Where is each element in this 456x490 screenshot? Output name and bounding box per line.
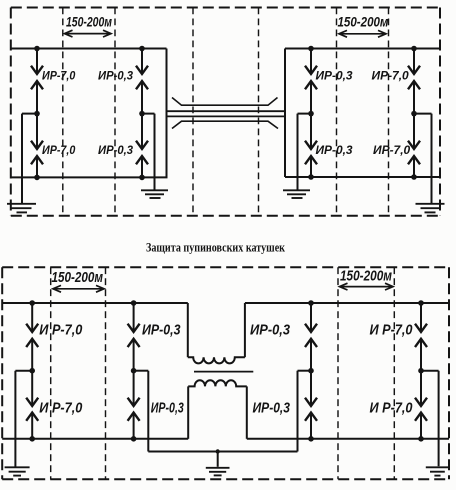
node: midpoint junction col4 bbox=[411, 111, 417, 117]
node: midpoint junction colB bbox=[131, 368, 137, 374]
pupin coil upper winding L1 bbox=[188, 357, 245, 363]
cable insert conductor lower (top diagram) bbox=[167, 115, 285, 117]
arrester ИР-7,0 upper (col1, top diagram): spark gap bbox=[36, 49, 38, 75]
wire: ground bus lead colB bbox=[147, 371, 149, 452]
arrester ИР-7,0 upper (col4, top diagram): spark gap bbox=[413, 49, 415, 75]
node: bottom wire junction col4 bbox=[411, 174, 417, 180]
wire: bottom conductor, right section (bottom diagram) bbox=[247, 438, 449, 440]
dashed border right (top diagram) bbox=[439, 8, 441, 216]
wire: drop to pupin coil upper winding, left bbox=[187, 303, 189, 357]
svg-text:И Р-7,0: И Р-7,0 bbox=[39, 401, 82, 417]
arrester ИР-0,3 upper (colB, bottom diagram): spark gap bbox=[133, 303, 135, 332]
section line (pole) 4 top diagram bbox=[258, 8, 260, 216]
section line (pole) 3 bottom diagram bbox=[337, 267, 339, 479]
svg-text:ИР-0,3: ИР-0,3 bbox=[316, 68, 353, 82]
wire: lower winding left lead bbox=[187, 386, 189, 438]
node: top wire junction col4 bbox=[411, 46, 417, 52]
wire: top conductor, left section (bottom diagram) bbox=[2, 302, 188, 304]
svg-text:ИР-7,0: ИР-7,0 bbox=[372, 68, 409, 82]
node: bottom wire junction col2 bbox=[139, 175, 145, 181]
dashed border left (bottom diagram) bbox=[1, 267, 3, 479]
node: bottom wire junction col1 bbox=[34, 175, 40, 181]
arrester ИР-7,0 lower (colD, bottom diagram): spark gap bbox=[420, 371, 422, 406]
wire: jog from col3 midpoint to ground lead bbox=[298, 113, 312, 115]
ground symbol (right corner, top diagram) bbox=[416, 204, 445, 213]
wire: ground stem (bus, bottom diagram) bbox=[217, 452, 219, 467]
arrester ИР-7,0 upper (colA, bottom diagram): spark gap bbox=[31, 303, 33, 332]
node: top wire junction colD bbox=[418, 300, 424, 306]
wire: bottom line conductor, right section (top diagram) bbox=[285, 176, 440, 178]
dimension arrow bottom-left bbox=[53, 285, 104, 292]
node: top wire junction col1 bbox=[34, 46, 40, 52]
svg-text:ИР-7,0: ИР-7,0 bbox=[42, 68, 75, 82]
dimension arrow bottom-right bbox=[340, 283, 394, 290]
wire: jog from colD midpoint to ground lead bbox=[421, 370, 439, 372]
arrester ИР-0,3 upper (col2, top diagram): spark gap bbox=[141, 49, 143, 75]
section line (pole) 5 top diagram bbox=[336, 8, 338, 216]
wire: top line conductor, left section (top diagram) bbox=[11, 48, 167, 50]
node: midpoint junction col1 bbox=[34, 111, 40, 117]
node: bottom wire junction col3 bbox=[308, 174, 314, 180]
ground symbol (mid-left, top diagram) bbox=[141, 190, 168, 198]
node: midpoint junction colA bbox=[29, 368, 35, 374]
section line (pole) 6 top diagram bbox=[388, 8, 390, 216]
cable sheath outline lower (top diagram) bbox=[172, 121, 278, 128]
dashed border bottom (bottom diagram) bbox=[2, 478, 449, 480]
wire: common ground bus (bottom diagram) bbox=[148, 451, 297, 453]
dimension arrow top-right bbox=[339, 30, 386, 37]
dashed border left (top diagram) bbox=[10, 8, 12, 216]
node: top wire junction col2 bbox=[139, 46, 145, 52]
dimension arrow top-left bbox=[65, 30, 112, 37]
wire: top line conductor, right section (top diagram) bbox=[285, 48, 440, 50]
node: top wire junction colC bbox=[308, 300, 314, 306]
section line (pole) 3 top diagram bbox=[192, 8, 194, 216]
arrester ИР-0,3 lower (colC, bottom diagram): spark gap bbox=[310, 371, 312, 406]
arrester ИР-0,3 upper (col3, top diagram): spark gap bbox=[310, 49, 312, 75]
wire: lower winding right lead bbox=[246, 386, 248, 438]
node: top wire junction col3 bbox=[308, 46, 314, 52]
section line (pole) 2 bottom diagram bbox=[105, 267, 107, 479]
node: midpoint junction col3 bbox=[308, 111, 314, 117]
svg-text:150-200м: 150-200м bbox=[66, 13, 112, 29]
wire: ground bus lead colC bbox=[297, 371, 299, 452]
section line (pole) 4 bottom diagram bbox=[393, 267, 395, 479]
section line (pole) 1 bottom diagram bbox=[50, 267, 52, 479]
dashed border bottom (top diagram) bbox=[11, 215, 440, 217]
svg-text:ИР-7,0: ИР-7,0 bbox=[42, 143, 75, 157]
wire: ground lead col4 bbox=[431, 114, 433, 204]
svg-text:150-200м: 150-200м bbox=[340, 269, 392, 285]
svg-text:Защита пупиновских катушек: Защита пупиновских катушек bbox=[146, 240, 286, 254]
dashed border right (bottom diagram) bbox=[448, 267, 450, 479]
wire: ground lead colD bbox=[438, 371, 440, 467]
ground symbol (left corner, bottom diagram) bbox=[5, 467, 30, 475]
wire: jog from colA midpoint to ground lead bbox=[15, 370, 32, 372]
arrester ИР-0,3 lower (col2, top diagram): spark gap bbox=[141, 114, 143, 149]
arrester ИР-0,3 lower (colB, bottom diagram): spark gap bbox=[133, 371, 135, 406]
cable sheath outline upper (top diagram) bbox=[172, 98, 278, 106]
pupin coil core bbox=[194, 371, 253, 373]
svg-text:150-200м: 150-200м bbox=[338, 13, 390, 29]
node: ground bus tap bbox=[216, 449, 220, 453]
node: bottom wire junction colA bbox=[29, 436, 35, 442]
node: midpoint junction col2 bbox=[139, 111, 145, 117]
arrester ИР-7,0 lower (col4, top diagram): spark gap bbox=[413, 114, 415, 149]
wire: riser from pupin coil upper winding, right bbox=[244, 303, 246, 357]
cable insert conductor upper (top diagram) bbox=[167, 110, 286, 112]
node: bottom wire junction colC bbox=[308, 436, 314, 442]
svg-text:ИР-0,3: ИР-0,3 bbox=[98, 68, 133, 82]
svg-text:ИР-0,3: ИР-0,3 bbox=[253, 401, 291, 417]
ground symbol (center, bottom diagram) bbox=[206, 468, 230, 476]
wire: jog from col2 midpoint to ground lead bbox=[142, 113, 155, 115]
arrester ИР-0,3 upper (colC, bottom diagram): spark gap bbox=[310, 303, 312, 332]
wire: jog from colB midpoint to ground bus bbox=[134, 370, 149, 372]
node: top wire junction colB bbox=[131, 300, 137, 306]
svg-text:ИР-0,3: ИР-0,3 bbox=[316, 143, 353, 157]
section line (pole) 2 top diagram bbox=[114, 8, 116, 216]
ground symbol (mid-right, top diagram) bbox=[283, 190, 310, 198]
arrester ИР-7,0 upper (colD, bottom diagram): spark gap bbox=[420, 303, 422, 332]
svg-text:И Р-7,0: И Р-7,0 bbox=[370, 401, 413, 417]
svg-text:ИР-0,3: ИР-0,3 bbox=[98, 143, 133, 157]
wire: top conductor, right section (bottom diagram) bbox=[245, 302, 449, 304]
svg-text:ИР-0,3: ИР-0,3 bbox=[151, 401, 184, 417]
wire: ground lead col2 bbox=[154, 114, 156, 190]
wire: ground lead col1 bbox=[21, 114, 23, 204]
wire: ground lead col3 bbox=[297, 114, 299, 190]
svg-text:150-200м: 150-200м bbox=[52, 270, 104, 286]
wire: bottom conductor, left section (bottom diagram) bbox=[2, 438, 188, 440]
wire: jog from colC midpoint to ground bus bbox=[298, 370, 312, 372]
node: bottom wire junction colB bbox=[131, 436, 137, 442]
section line (pole) 1 top diagram bbox=[62, 8, 64, 216]
node: midpoint junction colD bbox=[418, 368, 424, 374]
wire: drop from cable to conductors, right (top diagram) bbox=[284, 49, 286, 178]
wire: drop from top conductor to cable, left (top diagram) bbox=[166, 49, 168, 178]
ground symbol (right corner, bottom diagram) bbox=[426, 467, 449, 475]
ground symbol (left corner, top diagram) bbox=[7, 204, 36, 213]
pupin coil lower winding L2 bbox=[188, 380, 247, 386]
arrester ИР-0,3 lower (col3, top diagram): spark gap bbox=[310, 114, 312, 149]
arrester ИР-7,0 lower (colA, bottom diagram): spark gap bbox=[31, 371, 33, 406]
svg-text:ИР-7,0: ИР-7,0 bbox=[373, 143, 410, 157]
svg-text:И Р-7,0: И Р-7,0 bbox=[39, 323, 82, 339]
svg-text:И Р-7,0: И Р-7,0 bbox=[370, 323, 413, 339]
wire: jog from col1 midpoint to ground lead bbox=[22, 113, 37, 115]
svg-text:ИР-0,3: ИР-0,3 bbox=[250, 323, 290, 339]
wire: ground lead colA bbox=[14, 371, 16, 467]
wire: jog from col4 midpoint to ground lead bbox=[414, 113, 432, 115]
dashed border top (top diagram) bbox=[11, 7, 440, 9]
node: top wire junction colA bbox=[29, 300, 35, 306]
wire: bottom line conductor, left section (top diagram) bbox=[11, 176, 168, 178]
svg-text:ИР-0,3: ИР-0,3 bbox=[142, 323, 181, 339]
node: bottom wire junction colD bbox=[418, 436, 424, 442]
dashed border top (bottom diagram) bbox=[2, 266, 449, 268]
arrester ИР-7,0 lower (col1, top diagram): spark gap bbox=[36, 114, 38, 149]
node: midpoint junction colC bbox=[308, 368, 314, 374]
